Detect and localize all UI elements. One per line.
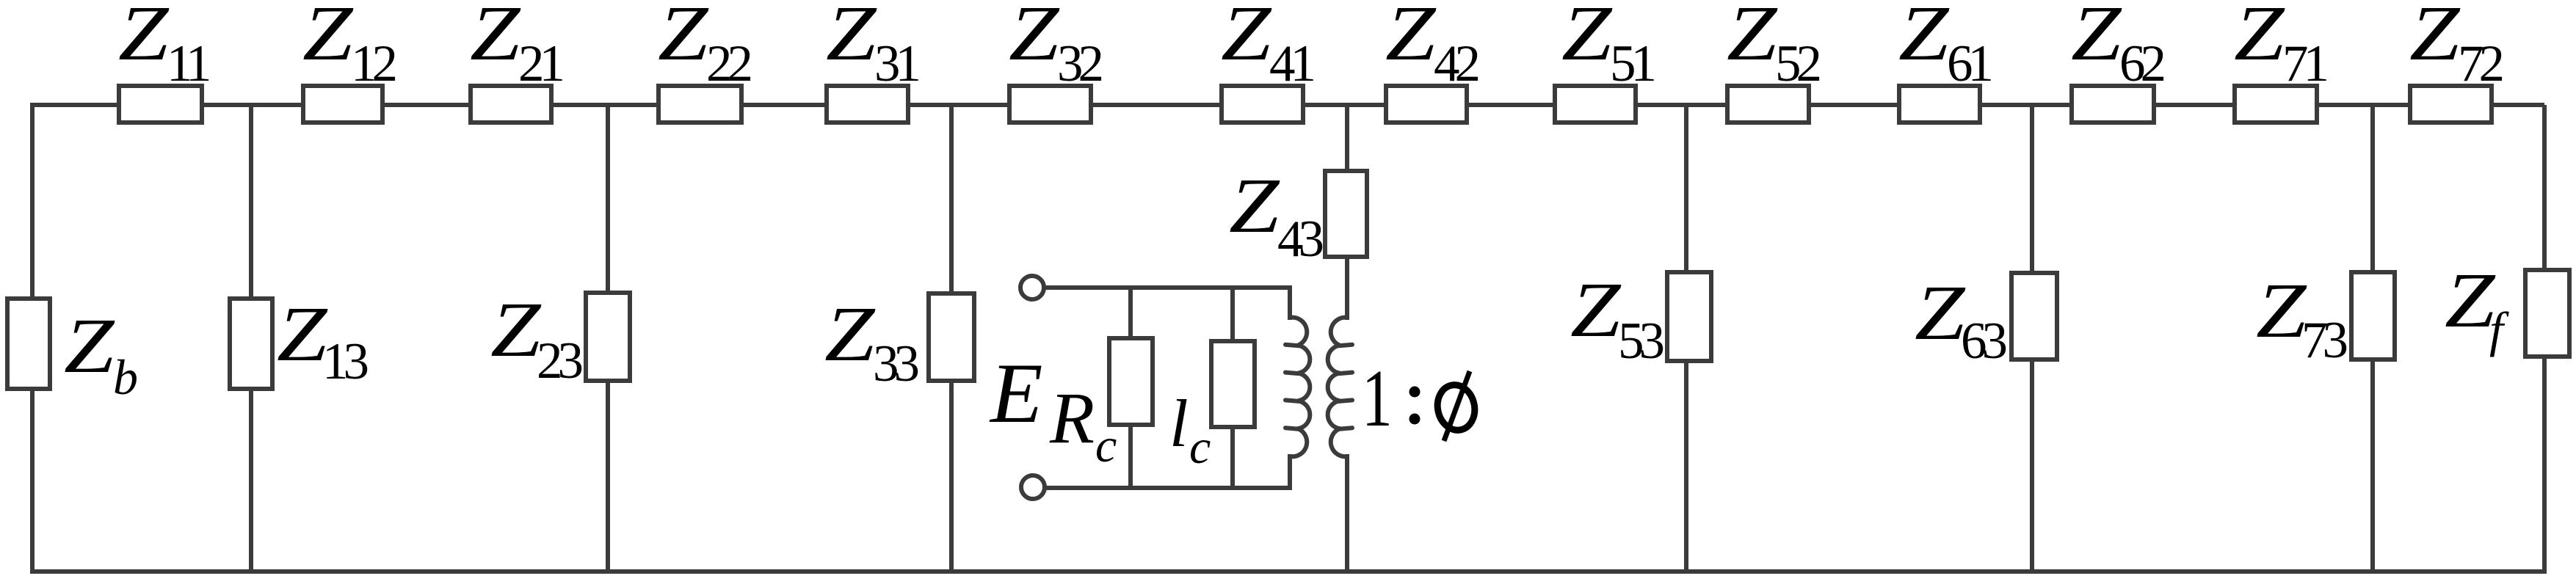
wire right column Zf (2542, 105, 2547, 572)
svg-text:c: c (1189, 420, 1211, 474)
svg-text:12: 12 (351, 35, 396, 92)
svg-text:42: 42 (1434, 35, 1479, 92)
resistor Z33 (929, 293, 974, 381)
secondary winding cusp tick 1 (1339, 345, 1352, 346)
primary winding cusp tick 3 (1285, 400, 1299, 401)
wire primary coil bottom lead (1288, 454, 1292, 488)
wire column Z63 (2030, 105, 2034, 572)
resistor Z12 (303, 86, 382, 123)
svg-text:32: 32 (1057, 35, 1102, 92)
inductor primary winding (1290, 318, 1310, 457)
wire column Z23 (606, 105, 610, 572)
secondary winding cusp tick 2 (1339, 373, 1352, 374)
svg-text:71: 71 (2282, 35, 2327, 92)
resistor Rc (1109, 338, 1153, 425)
wire column Z13 (249, 105, 253, 572)
wire E source bottom lead (1045, 486, 1292, 490)
resistor Z32 (1009, 86, 1091, 123)
svg-text:Z: Z (277, 290, 328, 377)
svg-text:Z: Z (1009, 0, 1060, 76)
label phi of turns ratio (1434, 371, 1479, 441)
resistor Z11 (119, 86, 202, 123)
svg-text:Z: Z (1221, 0, 1272, 76)
wire left column Zb (30, 105, 35, 572)
svg-text:33: 33 (873, 335, 918, 393)
wire bottom rail (30, 569, 2547, 574)
resistor Zf (2525, 270, 2569, 357)
svg-text:13: 13 (322, 333, 368, 390)
svg-text:41: 41 (1269, 35, 1314, 92)
resistor Z22 (658, 86, 741, 123)
wire top rail (30, 103, 2544, 107)
wire corner to primary coil (1288, 285, 1292, 320)
secondary winding cusp tick 3 (1339, 400, 1352, 401)
primary winding cusp tick 2 (1285, 373, 1299, 374)
resistor Z52 (1727, 86, 1809, 123)
wire column Z73 (2370, 105, 2375, 572)
svg-text:63: 63 (1961, 313, 2006, 370)
resistor Z71 (2235, 86, 2317, 123)
resistor Z61 (1899, 86, 1980, 123)
svg-text:Z: Z (1727, 0, 1778, 76)
svg-text:21: 21 (518, 35, 563, 92)
resistor Z23 (586, 293, 630, 381)
wire transformer secondary to bottom rail (1345, 454, 1349, 572)
svg-text:Z: Z (470, 0, 521, 76)
wire Rc top lead (1128, 288, 1133, 337)
svg-text:Z: Z (1915, 269, 1966, 356)
resistor Z42 (1386, 86, 1467, 123)
svg-text:72: 72 (2458, 35, 2503, 92)
svg-text:b: b (113, 349, 138, 405)
svg-text:Z: Z (826, 0, 877, 76)
svg-text:Z: Z (1561, 0, 1613, 76)
resistor Z13 (230, 299, 272, 389)
svg-text:31: 31 (874, 35, 919, 92)
svg-text:1: 1 (1362, 354, 1393, 444)
wire E source top lead (1044, 285, 1292, 290)
svg-text:43: 43 (1277, 211, 1323, 268)
resistor Z63 (2011, 273, 2057, 359)
resistor Zb (7, 299, 50, 389)
svg-text:11: 11 (167, 35, 209, 92)
terminal bottom (1021, 475, 1045, 499)
primary winding cusp tick 4 (1285, 428, 1299, 429)
svg-text:l: l (1169, 386, 1189, 461)
svg-text:Z: Z (824, 290, 876, 377)
wire Rc bottom lead (1128, 426, 1133, 488)
wire lc top lead (1230, 288, 1235, 340)
svg-text:Z: Z (2234, 0, 2285, 76)
svg-text:Z: Z (1385, 0, 1437, 76)
secondary winding cusp tick 4 (1339, 428, 1352, 429)
svg-text:Z: Z (1570, 266, 1622, 353)
terminal top (1020, 276, 1044, 299)
svg-text:f: f (2489, 302, 2509, 357)
svg-text:c: c (1095, 419, 1117, 472)
wire lc bottom lead (1230, 428, 1235, 488)
inductor box lc (1211, 341, 1255, 427)
svg-text:Z: Z (2071, 0, 2122, 76)
resistor Z43 (1325, 171, 1367, 257)
svg-text:R: R (1049, 377, 1095, 459)
svg-text:51: 51 (1610, 35, 1655, 92)
svg-text:Z: Z (2409, 0, 2461, 76)
svg-text:22: 22 (706, 35, 751, 92)
svg-text:Z: Z (1229, 161, 1280, 249)
svg-text:Z: Z (2445, 256, 2496, 343)
wire Z43 to transformer (1345, 257, 1349, 320)
svg-text:23: 23 (537, 332, 582, 390)
resistor Z51 (1555, 86, 1636, 123)
resistor Z41 (1222, 86, 1303, 123)
resistor Z62 (2072, 86, 2154, 123)
resistor Z21 (471, 86, 551, 123)
svg-text:Z: Z (302, 0, 354, 76)
svg-text:Z: Z (118, 0, 170, 76)
svg-text:Z: Z (490, 285, 542, 373)
wire column Z43 top (1345, 105, 1349, 171)
svg-text:53: 53 (1618, 313, 1663, 370)
svg-text:Z: Z (64, 302, 115, 389)
svg-text:73: 73 (2301, 312, 2347, 369)
resistor Z31 (827, 86, 908, 123)
primary winding cusp tick 1 (1285, 345, 1299, 346)
wire column Z33 (949, 105, 954, 572)
svg-text:Z: Z (2256, 266, 2307, 354)
inductor secondary winding (1328, 318, 1348, 457)
svg-text:Z: Z (1898, 0, 1950, 76)
svg-text:Z: Z (658, 0, 709, 76)
svg-text:52: 52 (1775, 35, 1820, 92)
resistor Z53 (1667, 272, 1711, 361)
svg-text:61: 61 (1947, 35, 1992, 92)
svg-text:62: 62 (2119, 35, 2164, 92)
resistor Z72 (2410, 86, 2492, 123)
svg-text:E: E (989, 346, 1042, 441)
resistor Z73 (2351, 272, 2395, 359)
wire column Z53 (1684, 105, 1688, 572)
